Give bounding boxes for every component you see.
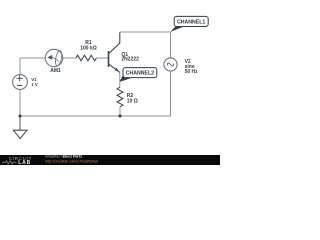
wire Q1 collector to CHANNEL1 junction bbox=[120, 31, 171, 33]
wire V1 top to corner bbox=[20, 58, 45, 75]
wire R2 bottom to rail bbox=[119, 107, 121, 116]
svg-text:kmaalhei / Elec1 Part1: kmaalhei / Elec1 Part1 bbox=[45, 155, 82, 159]
junction dot at R2/rail bbox=[119, 115, 122, 118]
svg-text:2N2222: 2N2222 bbox=[121, 57, 139, 63]
node CHANNEL1 bbox=[174, 16, 208, 26]
ammeter AM1 bbox=[45, 49, 63, 66]
node CHANNEL2 bbox=[123, 68, 157, 78]
footer bar bbox=[0, 155, 220, 165]
wire R1 to Q1 base bbox=[96, 57, 108, 59]
resistor R1 bbox=[76, 55, 96, 61]
svg-text:http://circuitlab.com/c/7k2ab5: http://circuitlab.com/c/7k2ab52bvd bbox=[45, 160, 98, 164]
footer logo zigzag bbox=[2, 161, 17, 164]
wire junction down to V2 top bbox=[170, 32, 172, 58]
wire AM1 to R1 bbox=[63, 57, 76, 59]
node CHANNEL2 flag wedge bbox=[120, 73, 132, 82]
svg-text:10 Ω: 10 Ω bbox=[127, 99, 138, 105]
Q1 emitter arrow bbox=[115, 68, 119, 72]
ground bbox=[13, 116, 27, 139]
wire V1 bottom to ground junction bbox=[19, 89, 21, 116]
svg-text:AM1: AM1 bbox=[50, 68, 61, 74]
svg-text:LAB: LAB bbox=[18, 160, 31, 165]
transistor Q1 bbox=[109, 32, 120, 72]
resistor R2 bbox=[117, 87, 123, 107]
voltage source V2 bbox=[164, 58, 177, 71]
junction dot at V1/ground bbox=[19, 115, 22, 118]
svg-text:1 V: 1 V bbox=[31, 82, 38, 87]
svg-text:50 Hz: 50 Hz bbox=[185, 69, 199, 75]
AM1 needle arrow bbox=[47, 55, 52, 60]
wire Q1 emitter down to R2 bbox=[119, 72, 121, 87]
voltage source V1 bbox=[13, 75, 28, 90]
svg-text:CHANNEL1: CHANNEL1 bbox=[177, 20, 205, 26]
svg-text:100 kΩ: 100 kΩ bbox=[80, 46, 97, 52]
wire V2 bottom to bottom rail corner bbox=[20, 71, 171, 116]
node CHANNEL1 flag wedge bbox=[170, 26, 184, 32]
svg-text:CHANNEL2: CHANNEL2 bbox=[126, 71, 154, 77]
